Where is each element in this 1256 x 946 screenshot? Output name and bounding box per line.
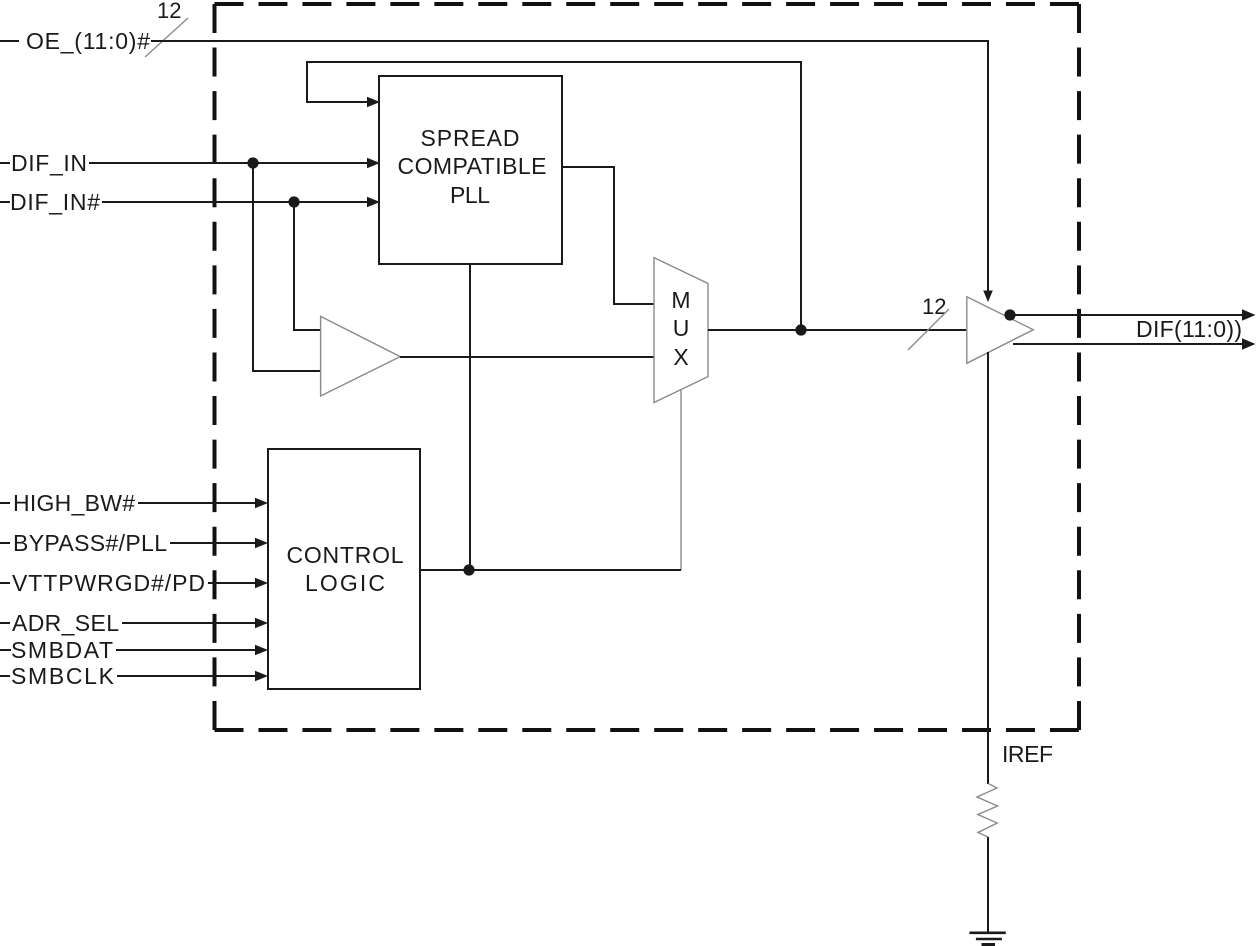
svg-text:LOGIC: LOGIC bbox=[305, 570, 385, 596]
svg-text:HIGH_BW#: HIGH_BW# bbox=[13, 490, 135, 516]
wire input buffer output to MUX lower input bbox=[400, 356, 654, 358]
wire PLL feedback loop from MUX output node bbox=[307, 62, 801, 330]
arrowhead DIF upper output bbox=[1242, 309, 1256, 321]
wire ADR_SEL to control logic bbox=[122, 622, 257, 624]
svg-text:U: U bbox=[673, 315, 690, 341]
svg-text:PLL: PLL bbox=[450, 182, 490, 208]
input buffer (bypass) bbox=[321, 316, 401, 396]
wire DIF_IN# to PLL bbox=[102, 201, 368, 203]
wire SMBCLK to control logic bbox=[117, 675, 257, 677]
wire VTTPWRGD#/PD to control logic bbox=[208, 582, 257, 584]
wire SMBDAT stub at left edge bbox=[0, 649, 11, 651]
wire ADR_SEL stub at left edge bbox=[0, 622, 10, 624]
wire MUX select from control logic bbox=[680, 390, 682, 570]
wire PLL bottom to control-logic output node bbox=[469, 264, 471, 570]
arrowhead feedback into PLL bbox=[367, 97, 380, 107]
svg-text:DIF(11:0)): DIF(11:0)) bbox=[1136, 316, 1242, 342]
output buffer bbox=[967, 297, 1034, 364]
wire DIF_IN stub at left edge bbox=[0, 162, 10, 164]
arrowhead DIF_IN# into PLL bbox=[367, 197, 380, 207]
arrowhead BYPASS#/PLL into control logic bbox=[255, 538, 268, 548]
arrowhead VTTPWRGD#/PD into control logic bbox=[255, 578, 268, 588]
svg-text:CONTROL: CONTROL bbox=[287, 542, 404, 568]
bus slash (OE bus) bbox=[145, 18, 188, 57]
wire BYPASS#/PLL stub at left edge bbox=[0, 542, 10, 544]
PLL block SPREAD COMPATIBLE PLL bbox=[379, 76, 562, 264]
wire SMBCLK stub at left edge bbox=[0, 675, 10, 677]
bus slash (DIF bus) bbox=[908, 309, 949, 350]
svg-text:DIF_IN: DIF_IN bbox=[11, 150, 87, 176]
arrowhead SMBCLK into control logic bbox=[255, 671, 268, 681]
junction DIF_IN node bbox=[247, 157, 258, 168]
svg-text:M: M bbox=[671, 287, 690, 313]
svg-text:IREF: IREF bbox=[1002, 741, 1053, 767]
svg-text:12: 12 bbox=[157, 0, 181, 23]
wire DIF_IN# branch to input buffer bbox=[294, 202, 321, 330]
wire control logic output to MUX select bbox=[420, 569, 681, 571]
svg-text:ADR_SEL: ADR_SEL bbox=[12, 610, 119, 636]
arrowhead SMBDAT into control logic bbox=[255, 645, 268, 655]
junction DIF_IN# node bbox=[288, 196, 299, 207]
wire PLL output to MUX upper input bbox=[562, 167, 654, 304]
wire VTTPWRGD#/PD stub at left edge bbox=[0, 582, 10, 584]
wire OE_(11:0)# to output buffer bbox=[151, 41, 988, 291]
arrowhead DIF lower output bbox=[1242, 338, 1256, 350]
wire resistor to ground bbox=[987, 837, 989, 932]
svg-text:SPREAD: SPREAD bbox=[421, 125, 520, 151]
wire HIGH_BW# stub at left edge bbox=[0, 502, 10, 504]
arrowhead HIGH_BW# into control logic bbox=[255, 498, 268, 508]
wire BYPASS#/PLL to control logic bbox=[170, 542, 257, 544]
resistor IREF bbox=[977, 784, 998, 838]
wire HIGH_BW# to control logic bbox=[138, 502, 257, 504]
svg-text:OE_(11:0)#: OE_(11:0)# bbox=[26, 28, 150, 54]
junction control output / PLL node bbox=[463, 564, 474, 575]
arrowhead DIF_IN into PLL bbox=[367, 158, 380, 168]
wire DIF_IN to PLL bbox=[89, 162, 368, 164]
wire DIF_IN# stub at left edge bbox=[0, 201, 10, 203]
chip boundary (dashed border) bbox=[215, 4, 1080, 730]
ground bbox=[969, 933, 1005, 945]
svg-text:SMBCLK: SMBCLK bbox=[11, 663, 115, 689]
junction MUX output / feedback node bbox=[795, 324, 806, 335]
wire OE stub at left edge bbox=[0, 40, 19, 42]
wire DIF upper output bbox=[1015, 314, 1246, 316]
svg-text:X: X bbox=[673, 344, 688, 370]
arrowhead OE into output buffer bbox=[983, 291, 993, 303]
svg-text:DIF_IN#: DIF_IN# bbox=[10, 189, 100, 215]
svg-text:BYPASS#/PLL: BYPASS#/PLL bbox=[13, 530, 167, 556]
wire MUX output to output buffer bbox=[708, 329, 967, 331]
wire DIF_IN branch to input buffer bbox=[253, 163, 321, 371]
arrowhead ADR_SEL into control logic bbox=[255, 618, 268, 628]
control logic block CONTROL LOGIC bbox=[268, 449, 420, 689]
wire output buffer down to IREF resistor bbox=[987, 352, 989, 784]
svg-text:COMPATIBLE: COMPATIBLE bbox=[398, 153, 547, 179]
mux MUX bbox=[654, 258, 708, 403]
wire DIF lower output bbox=[1013, 343, 1246, 345]
svg-text:VTTPWRGD#/PD: VTTPWRGD#/PD bbox=[12, 570, 205, 596]
svg-text:SMBDAT: SMBDAT bbox=[11, 637, 113, 663]
wire SMBDAT to control logic bbox=[116, 649, 257, 651]
junction output buffer upper node bbox=[1004, 309, 1015, 320]
